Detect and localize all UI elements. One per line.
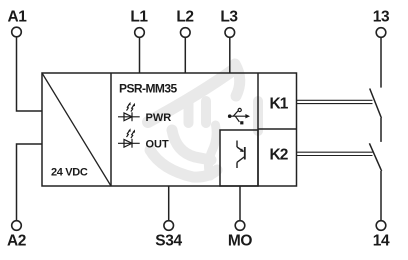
svg-text:14: 14 xyxy=(373,233,390,250)
watermark logo s-curve xyxy=(208,125,216,176)
svg-text:A2: A2 xyxy=(7,233,26,250)
watermark logo right short bar xyxy=(253,101,263,131)
svg-text:13: 13 xyxy=(373,9,390,26)
wire A1 to box xyxy=(17,37,43,111)
optocoupler box xyxy=(220,130,258,186)
svg-text:K2: K2 xyxy=(269,147,287,164)
watermark logo outer smile xyxy=(150,150,217,177)
svg-text:A1: A1 xyxy=(7,9,27,26)
svg-text:K1: K1 xyxy=(269,96,288,113)
K relay section divider xyxy=(257,73,259,186)
contact K1 blade xyxy=(370,89,382,119)
watermark logo right bar xyxy=(201,101,211,123)
svg-text:S34: S34 xyxy=(155,233,182,250)
wire L3 xyxy=(229,37,231,73)
svg-text:L3: L3 xyxy=(220,9,238,26)
wire to terminal 14 xyxy=(380,171,382,221)
watermark logo arc upper-left xyxy=(148,68,236,122)
transistor symbol xyxy=(237,141,245,169)
wire between contacts xyxy=(380,118,382,142)
watermark logo hook top xyxy=(235,64,240,96)
wire MO xyxy=(239,186,241,221)
svg-text:24 VDC: 24 VDC xyxy=(51,167,88,179)
wire L1 xyxy=(139,37,141,73)
svg-text:OUT: OUT xyxy=(146,139,170,151)
svg-text:L2: L2 xyxy=(176,9,193,26)
watermark logo inner smile xyxy=(172,130,211,160)
svg-text:L1: L1 xyxy=(130,9,148,26)
wire A2 to box xyxy=(17,144,43,221)
power supply diagonal xyxy=(42,73,111,186)
main module box xyxy=(42,73,297,186)
wire L2 xyxy=(184,37,186,73)
contact K2 blade xyxy=(369,143,381,171)
wire S34 xyxy=(168,186,170,221)
K2 linkage double line xyxy=(297,151,373,153)
K1 linkage double line xyxy=(297,99,373,101)
svg-text:MO: MO xyxy=(228,233,253,250)
power supply divider xyxy=(110,73,112,186)
wire 13 down xyxy=(380,37,382,87)
svg-text:PWR: PWR xyxy=(146,112,172,124)
USB icon xyxy=(228,108,250,124)
svg-text:PSR-MM35: PSR-MM35 xyxy=(119,82,177,96)
LED OUT symbol xyxy=(118,128,140,147)
K1 K2 divider xyxy=(258,128,297,130)
LED PWR symbol xyxy=(118,102,140,121)
watermark logo left bar xyxy=(184,102,194,123)
